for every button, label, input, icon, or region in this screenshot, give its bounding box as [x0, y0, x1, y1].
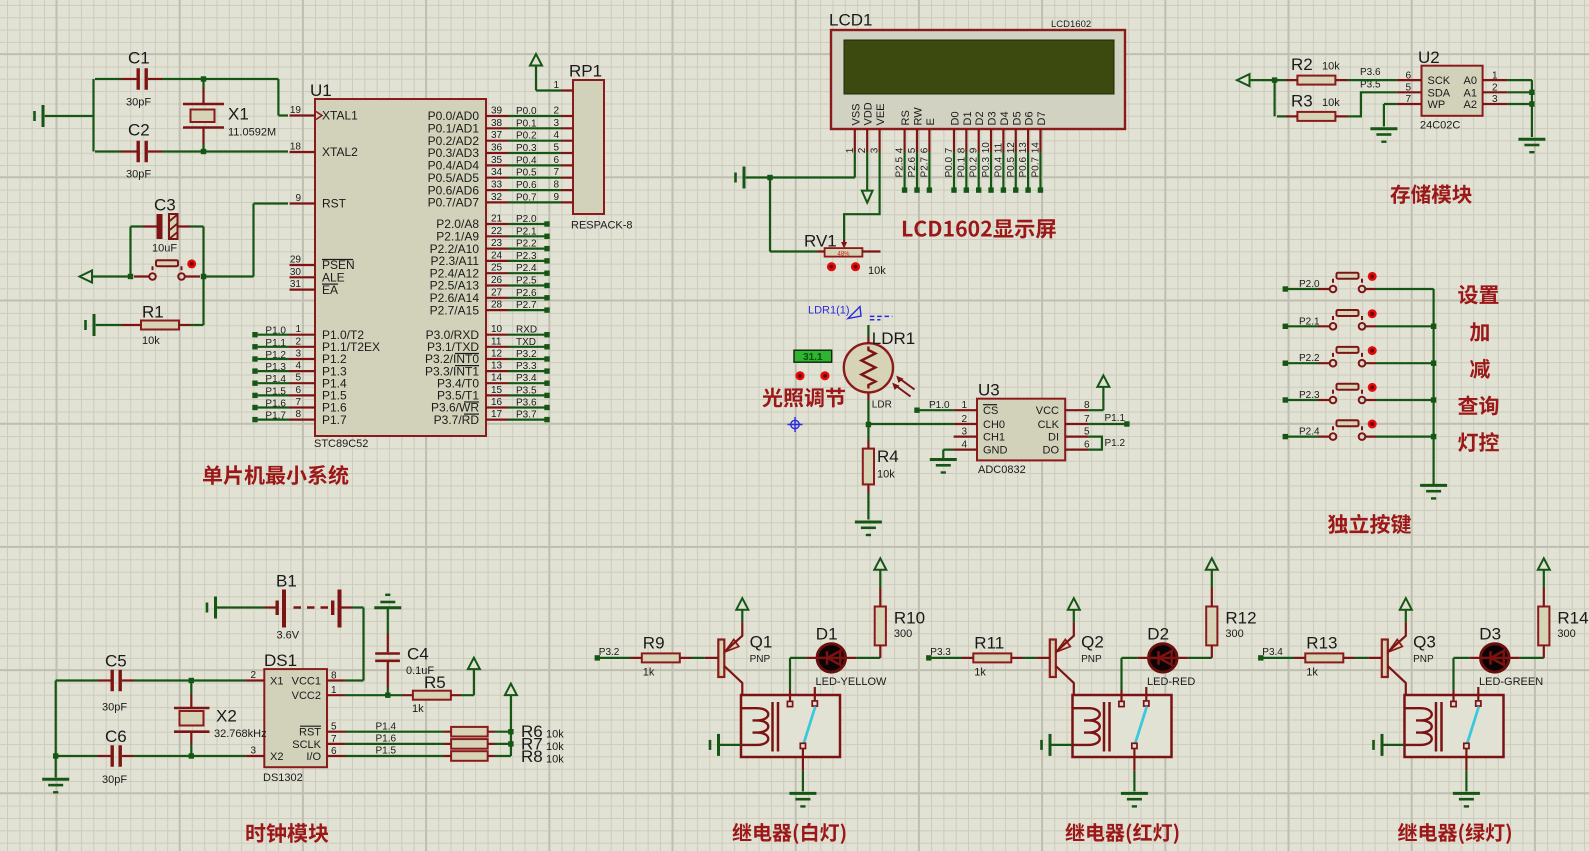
svg-text:LCD1: LCD1 [829, 11, 872, 30]
svg-text:VCC1: VCC1 [292, 676, 321, 688]
svg-text:10k: 10k [1322, 97, 1340, 109]
svg-text:XTAL2: XTAL2 [322, 145, 358, 159]
svg-text:1: 1 [553, 80, 559, 91]
svg-text:P0.7/AD7: P0.7/AD7 [428, 196, 480, 210]
svg-text:1: 1 [295, 324, 301, 335]
svg-text:R12: R12 [1225, 609, 1256, 628]
svg-text:8: 8 [553, 180, 559, 191]
svg-text:10k: 10k [546, 741, 564, 753]
svg-text:LDR1(1): LDR1(1) [808, 305, 850, 317]
svg-text:D3: D3 [1479, 625, 1501, 644]
svg-text:EA: EA [322, 283, 338, 297]
svg-text:31.1: 31.1 [803, 352, 823, 363]
svg-text:A0: A0 [1464, 75, 1477, 87]
svg-text:8: 8 [295, 409, 301, 420]
svg-text:R1: R1 [142, 303, 164, 322]
svg-text:38: 38 [491, 118, 503, 129]
svg-text:12: 12 [491, 349, 503, 360]
svg-text:16: 16 [491, 397, 503, 408]
svg-text:SCK: SCK [1428, 75, 1451, 87]
svg-text:CH1: CH1 [983, 432, 1005, 444]
svg-text:U2: U2 [1418, 48, 1440, 67]
svg-text:7: 7 [295, 397, 301, 408]
svg-text:6: 6 [553, 155, 559, 166]
svg-text:P1.1: P1.1 [1105, 413, 1126, 424]
svg-text:31: 31 [290, 279, 302, 290]
svg-text:C5: C5 [105, 652, 127, 671]
svg-text:LDR1: LDR1 [872, 329, 915, 348]
svg-text:LDR: LDR [872, 400, 892, 411]
svg-text:D4: D4 [999, 111, 1011, 125]
svg-text:U3: U3 [978, 381, 1000, 400]
svg-text:5: 5 [553, 143, 559, 154]
svg-text:6: 6 [295, 385, 301, 396]
svg-text:1k: 1k [643, 666, 655, 678]
svg-text:D5: D5 [1011, 111, 1023, 125]
svg-text:24: 24 [491, 250, 503, 261]
svg-text:11.0592M: 11.0592M [228, 127, 276, 139]
svg-text:30pF: 30pF [102, 702, 127, 714]
svg-text:30pF: 30pF [126, 97, 151, 109]
svg-text:34: 34 [491, 167, 503, 178]
svg-text:XTAL1: XTAL1 [322, 109, 358, 123]
svg-text:LED-YELLOW: LED-YELLOW [816, 676, 888, 688]
svg-text:X2: X2 [270, 751, 283, 763]
svg-text:DI: DI [1048, 432, 1059, 444]
svg-text:GND: GND [983, 445, 1008, 457]
svg-text:RST: RST [299, 727, 321, 739]
svg-text:29: 29 [290, 255, 302, 266]
svg-text:10k: 10k [546, 754, 564, 766]
svg-text:26: 26 [491, 275, 503, 286]
svg-text:R11: R11 [974, 633, 1004, 652]
svg-text:D3: D3 [987, 111, 999, 125]
svg-text:10: 10 [491, 324, 503, 335]
svg-text:ADC0832: ADC0832 [978, 464, 1026, 476]
svg-text:39: 39 [491, 106, 503, 117]
svg-text:C6: C6 [105, 727, 127, 746]
svg-text:P3.7/RD: P3.7/RD [434, 413, 480, 427]
svg-text:10k: 10k [546, 729, 564, 741]
svg-text:D7: D7 [1036, 111, 1048, 125]
svg-text:R9: R9 [643, 633, 665, 652]
svg-text:P3.6: P3.6 [1360, 67, 1381, 78]
svg-text:DS1302: DS1302 [263, 772, 303, 784]
svg-text:WP: WP [1428, 99, 1446, 111]
svg-text:DS1: DS1 [264, 651, 297, 670]
svg-text:1k: 1k [412, 703, 424, 715]
svg-text:3.6V: 3.6V [277, 630, 300, 642]
svg-text:SCLK: SCLK [292, 739, 321, 751]
svg-text:14: 14 [491, 373, 503, 384]
svg-text:CH0: CH0 [983, 419, 1005, 431]
svg-text:VDD: VDD [863, 102, 875, 125]
svg-text:SDA: SDA [1428, 87, 1451, 99]
svg-text:PNP: PNP [1081, 654, 1102, 665]
svg-text:1k: 1k [1306, 666, 1318, 678]
svg-text:13: 13 [491, 361, 503, 372]
svg-text:2: 2 [250, 670, 256, 681]
svg-text:PNP: PNP [750, 654, 771, 665]
svg-text:D0: D0 [950, 111, 962, 125]
svg-text:9: 9 [553, 192, 559, 203]
svg-text:A2: A2 [1464, 99, 1477, 111]
svg-text:R8: R8 [521, 747, 543, 766]
svg-text:R14: R14 [1557, 609, 1588, 628]
svg-text:30pF: 30pF [126, 169, 151, 181]
svg-text:A1: A1 [1464, 87, 1477, 99]
svg-text:9: 9 [295, 193, 301, 204]
svg-text:D6: D6 [1024, 111, 1036, 125]
svg-text:D1: D1 [962, 111, 974, 125]
svg-text:10k: 10k [142, 335, 160, 347]
svg-text:RP1: RP1 [569, 62, 602, 81]
svg-text:3: 3 [250, 746, 256, 757]
svg-text:27: 27 [491, 287, 503, 298]
svg-text:VCC2: VCC2 [292, 690, 321, 702]
svg-text:VCC: VCC [1036, 405, 1059, 417]
svg-text:R4: R4 [877, 447, 899, 466]
svg-text:5: 5 [295, 373, 301, 384]
svg-text:R13: R13 [1306, 633, 1337, 652]
svg-text:R2: R2 [1291, 55, 1313, 74]
svg-text:32.768kHz: 32.768kHz [214, 728, 267, 740]
svg-text:3: 3 [295, 349, 301, 360]
svg-text:X2: X2 [216, 707, 237, 726]
svg-text:37: 37 [491, 130, 503, 141]
svg-text:U1: U1 [310, 81, 332, 100]
svg-text:4: 4 [295, 361, 301, 372]
svg-text:23: 23 [491, 238, 503, 249]
svg-text:15: 15 [491, 385, 503, 396]
svg-text:RST: RST [322, 197, 347, 211]
svg-text:RS: RS [900, 110, 912, 125]
svg-text:X1: X1 [228, 105, 249, 124]
svg-text:Q1: Q1 [750, 633, 773, 652]
svg-text:R5: R5 [424, 673, 446, 692]
svg-text:3: 3 [553, 118, 559, 129]
svg-text:LCD1602: LCD1602 [1051, 19, 1091, 30]
svg-text:28: 28 [491, 300, 503, 311]
svg-text:10k: 10k [877, 469, 895, 481]
svg-text:P3.2: P3.2 [599, 647, 620, 658]
svg-text:D2: D2 [974, 111, 986, 125]
svg-text:300: 300 [894, 628, 912, 640]
svg-text:PNP: PNP [1413, 654, 1434, 665]
svg-text:CS: CS [983, 405, 998, 417]
svg-text:RV1: RV1 [804, 232, 837, 251]
svg-text:4: 4 [553, 130, 559, 141]
svg-text:D2: D2 [1147, 625, 1169, 644]
svg-text:STC89C52: STC89C52 [314, 438, 368, 450]
svg-text:7: 7 [553, 167, 559, 178]
svg-text:19: 19 [290, 105, 302, 116]
svg-text:R3: R3 [1291, 92, 1313, 111]
svg-text:25: 25 [491, 263, 503, 274]
svg-text:P3.4: P3.4 [1262, 647, 1283, 658]
svg-text:CLK: CLK [1038, 419, 1060, 431]
svg-text:36: 36 [491, 143, 503, 154]
svg-text:35: 35 [491, 155, 503, 166]
svg-text:LED-GREEN: LED-GREEN [1479, 676, 1543, 688]
svg-text:RESPACK-8: RESPACK-8 [571, 220, 633, 232]
svg-text:LED-RED: LED-RED [1147, 676, 1195, 688]
svg-text:32: 32 [491, 192, 503, 203]
svg-text:DO: DO [1043, 445, 1060, 457]
svg-text:1k: 1k [974, 666, 986, 678]
svg-text:VSS: VSS [850, 103, 862, 125]
svg-text:30pF: 30pF [102, 774, 127, 786]
svg-text:P3.3: P3.3 [930, 647, 951, 658]
svg-text:2: 2 [295, 336, 301, 347]
svg-text:Q2: Q2 [1081, 633, 1104, 652]
svg-text:C4: C4 [407, 645, 429, 664]
svg-text:R10: R10 [894, 609, 925, 628]
svg-text:11: 11 [491, 336, 502, 347]
svg-text:D1: D1 [816, 625, 838, 644]
svg-text:P1.2: P1.2 [1105, 438, 1126, 449]
svg-text:RW: RW [913, 107, 925, 126]
svg-text:33: 33 [491, 180, 503, 191]
svg-text:C2: C2 [128, 121, 150, 140]
svg-text:10k: 10k [868, 265, 886, 277]
svg-text:VEE: VEE [875, 103, 887, 125]
svg-text:24C02C: 24C02C [1420, 120, 1460, 132]
svg-text:E: E [925, 118, 937, 125]
svg-text:2: 2 [553, 106, 559, 117]
svg-text:I/O: I/O [306, 751, 321, 763]
svg-text:300: 300 [1225, 628, 1243, 640]
svg-text:P2.7/A15: P2.7/A15 [430, 303, 480, 317]
svg-text:300: 300 [1557, 628, 1575, 640]
svg-text:30: 30 [290, 267, 302, 278]
svg-text:22: 22 [491, 226, 503, 237]
svg-text:18: 18 [290, 142, 302, 153]
svg-text:17: 17 [491, 409, 503, 420]
svg-text:10k: 10k [1322, 61, 1340, 73]
svg-text:P1.7: P1.7 [322, 413, 347, 427]
svg-text:Q3: Q3 [1413, 633, 1436, 652]
svg-text:C1: C1 [128, 49, 150, 68]
svg-text:X1: X1 [270, 676, 283, 688]
svg-text:C3: C3 [154, 196, 176, 215]
svg-text:10uF: 10uF [152, 243, 177, 255]
svg-text:B1: B1 [276, 572, 297, 591]
svg-text:21: 21 [491, 214, 503, 225]
svg-text:48%: 48% [837, 251, 850, 257]
